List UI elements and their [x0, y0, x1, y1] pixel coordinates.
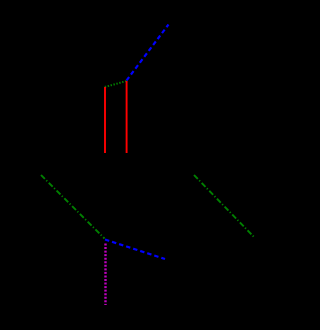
blue dashed ray (upper right) [127, 25, 169, 81]
blue dashed ray (lower middle) [105, 240, 165, 260]
green dash-dot line (lower right) [194, 175, 254, 237]
green dotted segment (between red lines tops) [105, 81, 127, 87]
red vertical line (left) [104, 87, 106, 153]
green dash-dot line (lower left) [41, 175, 105, 239]
red vertical line (right) [126, 81, 128, 153]
magenta dotted vertical line [104, 244, 106, 306]
